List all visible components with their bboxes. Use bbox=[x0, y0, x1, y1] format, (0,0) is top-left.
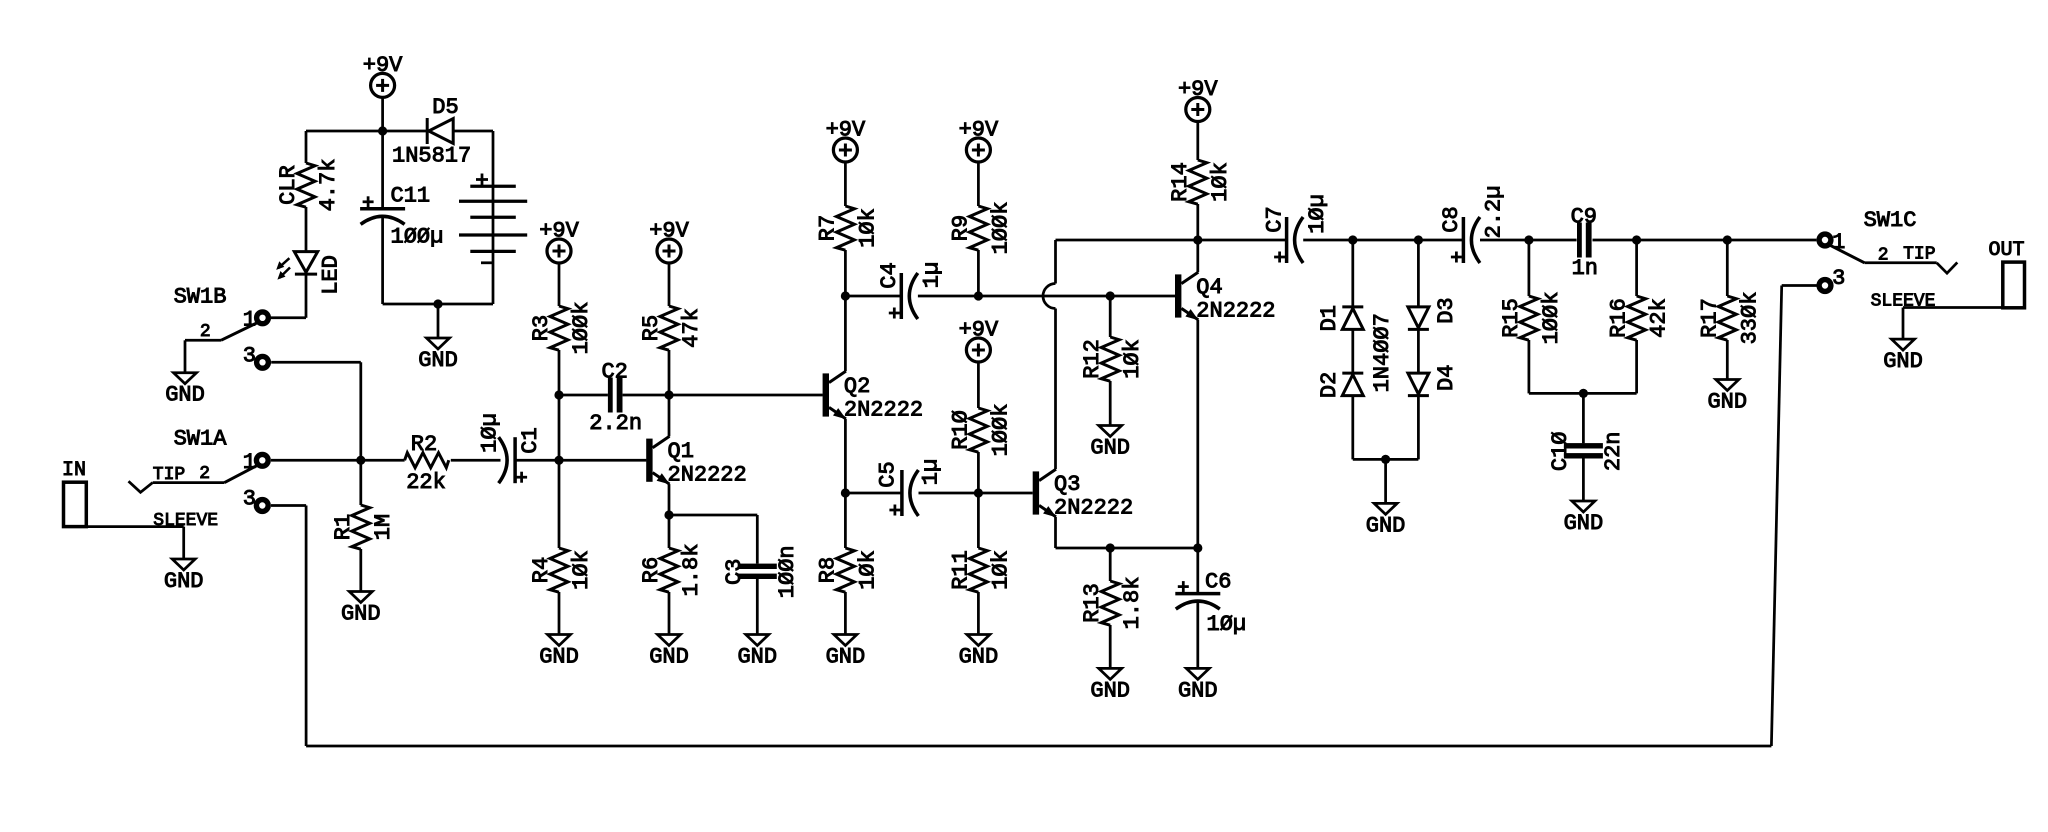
ground R11 bbox=[959, 635, 999, 670]
wire R4 to ground bbox=[558, 592, 561, 635]
wire emitter node to R6 bbox=[668, 515, 671, 548]
wire D3 to D4 bbox=[1417, 329, 1420, 373]
svg-text:2.2n: 2.2n bbox=[589, 411, 642, 436]
wire Q1 collector up bbox=[668, 395, 671, 436]
wire R15 drop bbox=[1528, 240, 1531, 296]
capacitor C8 bbox=[1451, 217, 1480, 263]
svg-text:3: 3 bbox=[243, 343, 256, 368]
wire IN sleeve east bbox=[86, 525, 183, 528]
wire R15 bottom bbox=[1528, 340, 1531, 393]
svg-text:R1: R1 bbox=[331, 514, 356, 540]
svg-text:+9V: +9V bbox=[959, 118, 999, 143]
svg-text:1µ: 1µ bbox=[920, 262, 945, 288]
svg-text:SW1B: SW1B bbox=[174, 284, 227, 309]
wire top rail left to CLR bbox=[306, 130, 383, 133]
capacitor C9 bbox=[1577, 223, 1592, 258]
wire OUT sleeve west bbox=[1903, 306, 2003, 309]
wire IN tip hook bbox=[129, 481, 153, 492]
junction +9V rail bbox=[378, 126, 387, 135]
wire R17 to ground bbox=[1726, 340, 1729, 380]
ground R12 bbox=[1090, 426, 1130, 461]
diode D5 bbox=[427, 118, 453, 144]
capacitor C6 bbox=[1175, 581, 1220, 609]
wire down to C3 bbox=[756, 515, 759, 564]
svg-text:1Øk: 1Øk bbox=[855, 550, 880, 590]
resistor R5 bbox=[660, 306, 678, 350]
junction R5 Q1 collector bbox=[664, 390, 673, 399]
resistor R3 bbox=[550, 306, 568, 350]
wire hop over Q4 base line bbox=[1043, 284, 1056, 309]
svg-text:GND: GND bbox=[165, 383, 205, 408]
resistor R15 bbox=[1520, 296, 1538, 340]
wire bypass down left bbox=[305, 506, 308, 747]
svg-text:C6: C6 bbox=[1205, 570, 1231, 595]
svg-text:1Øk: 1Øk bbox=[569, 550, 594, 590]
switch SW1C pin 3 bbox=[1819, 280, 1831, 292]
wire R13 to ground bbox=[1109, 625, 1112, 668]
switch SW1A lever bbox=[225, 465, 258, 482]
switch SW1B pin 3 bbox=[257, 356, 269, 368]
wire SW1B pin 2 to ground bbox=[184, 340, 187, 372]
svg-text:R14: R14 bbox=[1168, 162, 1193, 202]
svg-text:Q3: Q3 bbox=[1054, 472, 1080, 497]
wire IN tip to SW1A bbox=[153, 481, 225, 484]
wire C6 drop bbox=[1196, 548, 1199, 594]
wire diode ground stem bbox=[1384, 459, 1387, 503]
junction R14 Q4 collector C7 bbox=[1193, 235, 1202, 244]
ground C3 bbox=[737, 635, 777, 670]
ground R4 bbox=[539, 635, 579, 670]
svg-text:1µ: 1µ bbox=[919, 459, 944, 485]
resistor R17 bbox=[1718, 296, 1736, 340]
power +9V supply input bbox=[363, 53, 403, 98]
capacitor C11 bbox=[360, 196, 405, 224]
ground R17 bbox=[1707, 380, 1747, 415]
ground R1 bbox=[341, 592, 381, 627]
svg-text:GND: GND bbox=[418, 348, 458, 373]
wire D1 to D2 bbox=[1351, 329, 1354, 373]
battery BT1 bbox=[459, 131, 527, 304]
switch SW1B lever bbox=[221, 323, 258, 341]
wire D2 to bottom bbox=[1351, 396, 1354, 460]
switch SW1C pin 1 bbox=[1819, 234, 1831, 246]
svg-text:C8: C8 bbox=[1439, 206, 1464, 232]
wire node to C4 bbox=[845, 295, 901, 298]
wire R5 to node bbox=[668, 350, 671, 395]
svg-text:C1Ø: C1Ø bbox=[1548, 431, 1573, 471]
wire C11 to bottom bbox=[381, 217, 384, 305]
wire Q2 emitter to C5 bbox=[845, 492, 902, 495]
wire SW1A pin 1 to R2 bbox=[271, 459, 405, 462]
svg-text:1ØØk: 1ØØk bbox=[569, 302, 594, 355]
wire R12 to ground bbox=[1109, 381, 1112, 426]
ground battery bbox=[418, 338, 458, 373]
wire SW1B pin 3 down to input node bbox=[359, 362, 362, 460]
svg-text:1.8k: 1.8k bbox=[679, 544, 704, 597]
wire C10 to ground bbox=[1582, 459, 1585, 502]
svg-text:LED: LED bbox=[319, 255, 344, 295]
svg-text:C5: C5 bbox=[875, 461, 900, 487]
junction R9 bottom bbox=[974, 291, 983, 300]
svg-text:1n: 1n bbox=[1572, 256, 1598, 281]
wire C7 to C8 bbox=[1303, 239, 1463, 242]
svg-text:R5: R5 bbox=[639, 315, 664, 341]
svg-text:R3: R3 bbox=[529, 315, 554, 341]
svg-text:C1: C1 bbox=[518, 427, 543, 453]
wire +9V rail to D5 bbox=[383, 130, 428, 133]
wire OUT sleeve to ground bbox=[1902, 308, 1905, 340]
wire emitter to R8 bbox=[844, 493, 847, 548]
resistor R8 bbox=[836, 548, 854, 592]
junction R3 C2 bbox=[554, 390, 563, 399]
wire R7 to collector node bbox=[844, 250, 847, 296]
wire R3 node down bbox=[558, 395, 561, 460]
svg-text:D5: D5 bbox=[432, 95, 458, 120]
svg-text:C11: C11 bbox=[391, 184, 431, 209]
wire Q3 emitter down bbox=[1054, 517, 1057, 548]
svg-text:+9V: +9V bbox=[1178, 77, 1218, 102]
wire C10 drop bbox=[1582, 393, 1585, 443]
capacitor C3 bbox=[738, 564, 777, 579]
svg-text:GND: GND bbox=[959, 645, 999, 670]
wire ground stem battery bbox=[437, 304, 440, 338]
wire D3 drop bbox=[1417, 240, 1420, 307]
wire rail to C11 bbox=[381, 131, 384, 209]
switch SW1A pin 1 bbox=[256, 454, 268, 466]
capacitor C2 bbox=[608, 378, 623, 413]
power +9V R14 bbox=[1178, 77, 1218, 122]
svg-text:GND: GND bbox=[1178, 678, 1218, 703]
capacitor C7 bbox=[1274, 217, 1303, 263]
capacitor C5 bbox=[889, 470, 918, 516]
svg-text:1Øk: 1Øk bbox=[1120, 339, 1145, 379]
wire Q3 collector top bbox=[1054, 240, 1057, 284]
wire LED to SW1B corner bbox=[305, 276, 308, 318]
svg-text:R2: R2 bbox=[411, 432, 437, 457]
resistor R16 bbox=[1628, 296, 1646, 340]
ground OUT sleeve bbox=[1883, 339, 1923, 374]
svg-text:2N2222: 2N2222 bbox=[1196, 299, 1275, 324]
wire diode bottom rail bbox=[1353, 458, 1419, 461]
svg-text:GND: GND bbox=[1090, 436, 1130, 461]
svg-text:R12: R12 bbox=[1080, 339, 1105, 379]
transistor Q3 bbox=[1033, 469, 1057, 517]
junction C1 R3 R4 bbox=[554, 456, 563, 465]
wire R16 bottom bbox=[1635, 340, 1638, 393]
wire D5 to battery top bbox=[453, 130, 493, 133]
junction R7 C4 Q2 collector bbox=[841, 291, 850, 300]
ground R13 bbox=[1090, 668, 1130, 703]
wire Q2 collector up bbox=[844, 296, 847, 371]
ground R8 bbox=[826, 635, 866, 670]
resistor R14 bbox=[1189, 160, 1207, 204]
svg-text:R1Ø: R1Ø bbox=[948, 410, 973, 450]
wire R10 to node bbox=[977, 452, 980, 493]
svg-text:1ØØk: 1ØØk bbox=[1539, 292, 1564, 345]
diode D3 bbox=[1408, 307, 1429, 330]
svg-text:1ØØn: 1ØØn bbox=[775, 545, 800, 598]
svg-text:3: 3 bbox=[1832, 266, 1845, 291]
wire bypass up right bbox=[1771, 286, 1781, 747]
junction input node bbox=[356, 456, 365, 465]
svg-text:D4: D4 bbox=[1434, 365, 1459, 391]
diode D1 bbox=[1342, 307, 1363, 330]
wire +9V to R14 bbox=[1196, 122, 1199, 161]
resistor R1 bbox=[352, 505, 370, 549]
svg-text:22k: 22k bbox=[406, 470, 446, 495]
wire R3 to node bbox=[558, 350, 561, 395]
wire Q4 collector up bbox=[1196, 240, 1199, 272]
switch SW1B pin 1 bbox=[257, 312, 269, 324]
wire Q4 emitter down bbox=[1196, 320, 1199, 548]
junction R15 top bbox=[1524, 235, 1533, 244]
resistor CLR bbox=[297, 163, 315, 207]
transistor Q2 bbox=[823, 371, 847, 419]
svg-text:1.8k: 1.8k bbox=[1120, 577, 1145, 630]
svg-text:R8: R8 bbox=[815, 557, 840, 583]
junction R13 top bbox=[1106, 543, 1115, 552]
resistor R4 bbox=[550, 548, 568, 592]
svg-text:Q2: Q2 bbox=[844, 374, 870, 399]
svg-text:22n: 22n bbox=[1601, 431, 1626, 471]
junction R12 top bbox=[1106, 291, 1115, 300]
svg-text:+9V: +9V bbox=[363, 53, 403, 78]
wire SW1B pin 3 east bbox=[271, 361, 361, 364]
wire bypass bottom rail bbox=[306, 745, 1771, 748]
wire R14 to collector node bbox=[1196, 204, 1199, 240]
wire C9 to SW1C bbox=[1593, 239, 1817, 242]
wire C3 to ground bbox=[756, 579, 759, 635]
wire R17 drop bbox=[1726, 240, 1729, 296]
wire CLR drop bbox=[305, 131, 308, 163]
power +9V R10 bbox=[959, 318, 999, 363]
LED D6 bbox=[276, 252, 318, 280]
wire node to C7 bbox=[1198, 239, 1287, 242]
svg-text:GND: GND bbox=[539, 645, 579, 670]
wire R13 drop bbox=[1109, 548, 1112, 581]
junction R17 top bbox=[1723, 235, 1732, 244]
svg-text:R4: R4 bbox=[529, 557, 554, 583]
svg-text:2: 2 bbox=[199, 464, 210, 484]
ground IN sleeve bbox=[164, 559, 204, 594]
wire IN sleeve to ground bbox=[182, 527, 185, 559]
wire C4 to Q4 base bbox=[918, 295, 1175, 298]
svg-text:2: 2 bbox=[200, 322, 211, 342]
svg-text:D3: D3 bbox=[1434, 297, 1459, 323]
wire SW1A pin 3 east bbox=[271, 504, 306, 507]
wire node to C2 bbox=[559, 394, 608, 397]
diode D4 bbox=[1408, 373, 1429, 396]
resistor R10 bbox=[969, 408, 987, 452]
svg-text:R11: R11 bbox=[948, 550, 973, 590]
ground SW1B bbox=[165, 373, 205, 408]
power +9V R7 bbox=[826, 118, 866, 163]
switch SW1C lever bbox=[1830, 245, 1865, 263]
capacitor C1 bbox=[499, 437, 527, 483]
switch SW1A pin 3 bbox=[256, 500, 268, 512]
junction battery ground bbox=[433, 299, 442, 308]
wire C6 to ground bbox=[1196, 602, 1199, 669]
svg-text:GND: GND bbox=[737, 645, 777, 670]
wire R16 drop bbox=[1635, 240, 1638, 296]
transistor Q1 bbox=[646, 436, 670, 484]
svg-text:47k: 47k bbox=[679, 308, 704, 348]
svg-text:1Øµ: 1Øµ bbox=[1305, 194, 1330, 234]
wire C5 to Q3 base bbox=[919, 492, 1033, 495]
wire +9V to R5 bbox=[668, 263, 671, 306]
junction R10 R11 Q3 base bbox=[974, 488, 983, 497]
svg-text:GND: GND bbox=[649, 645, 689, 670]
power +9V R3 bbox=[539, 219, 579, 264]
svg-text:GND: GND bbox=[1883, 349, 1923, 374]
svg-text:GND: GND bbox=[164, 569, 204, 594]
ground R6 bbox=[649, 635, 689, 670]
wire +9V to R7 bbox=[844, 162, 847, 206]
connector IN jack bbox=[64, 482, 87, 526]
junction D1 branch bbox=[1348, 235, 1357, 244]
wire CLR to LED bbox=[305, 207, 308, 252]
wire OUT tip hook bbox=[1937, 262, 1958, 273]
power +9V R5 bbox=[649, 219, 689, 264]
diode D2 bbox=[1342, 373, 1363, 396]
junction C10 top bbox=[1579, 389, 1588, 398]
transistor Q4 bbox=[1175, 272, 1199, 320]
svg-text:1Øk: 1Øk bbox=[855, 208, 880, 248]
svg-text:2N2222: 2N2222 bbox=[668, 463, 747, 488]
svg-text:33Øk: 33Øk bbox=[1737, 292, 1762, 345]
svg-text:1Øµ: 1Øµ bbox=[477, 413, 502, 453]
wire battery bottom rail bbox=[383, 303, 493, 306]
wire SW1B pin 2 horizontal bbox=[185, 339, 221, 342]
svg-text:42k: 42k bbox=[1647, 298, 1672, 338]
svg-text:SW1A: SW1A bbox=[174, 426, 228, 451]
svg-text:1ØØk: 1ØØk bbox=[988, 202, 1013, 255]
wire Q2 emitter down bbox=[844, 419, 847, 493]
svg-text:+9V: +9V bbox=[539, 219, 579, 244]
svg-text:1N5817: 1N5817 bbox=[392, 144, 471, 169]
svg-text:GND: GND bbox=[1707, 390, 1747, 415]
svg-text:GND: GND bbox=[826, 645, 866, 670]
resistor R9 bbox=[969, 206, 987, 250]
svg-text:C3: C3 bbox=[722, 559, 747, 585]
svg-text:2.2µ: 2.2µ bbox=[1482, 186, 1507, 239]
resistor R2 bbox=[405, 453, 449, 468]
wire D1 drop bbox=[1351, 240, 1354, 307]
junction diode ground bbox=[1381, 455, 1390, 464]
svg-text:3: 3 bbox=[243, 487, 256, 512]
svg-text:R15: R15 bbox=[1499, 298, 1524, 338]
svg-text:R9: R9 bbox=[948, 215, 973, 241]
svg-text:1N4ØØ7: 1N4ØØ7 bbox=[1370, 313, 1395, 392]
svg-text:GND: GND bbox=[1366, 513, 1406, 538]
wire C2 to Q2 base line bbox=[623, 394, 823, 397]
svg-text:1ØØµ: 1ØØµ bbox=[391, 225, 444, 250]
svg-text:SLEEVE: SLEEVE bbox=[153, 511, 218, 531]
wire Q3 collector to output node bbox=[1056, 239, 1198, 242]
svg-text:1Øk: 1Øk bbox=[988, 550, 1013, 590]
junction R16 top bbox=[1632, 235, 1641, 244]
svg-text:GND: GND bbox=[341, 602, 381, 627]
svg-text:D1: D1 bbox=[1317, 305, 1342, 331]
junction Q1 emitter bbox=[664, 510, 673, 519]
svg-text:SW1C: SW1C bbox=[1864, 208, 1917, 233]
svg-text:GND: GND bbox=[1564, 511, 1604, 536]
wire LED corner to SW1B pin 1 bbox=[271, 316, 306, 319]
svg-text:+9V: +9V bbox=[826, 118, 866, 143]
wire R12 drop bbox=[1109, 296, 1112, 337]
ground C6 bbox=[1178, 668, 1218, 703]
svg-text:R7: R7 bbox=[815, 215, 840, 241]
svg-text:R16: R16 bbox=[1607, 298, 1632, 338]
resistor R12 bbox=[1101, 337, 1119, 381]
wire R8 to ground bbox=[844, 592, 847, 635]
svg-text:4.7k: 4.7k bbox=[316, 159, 341, 212]
wire Q1 emitter to C3 bbox=[669, 514, 757, 517]
svg-text:D2: D2 bbox=[1317, 372, 1342, 398]
resistor R6 bbox=[660, 548, 678, 592]
wire bypass to SW1C pin 3 bbox=[1782, 284, 1817, 287]
svg-text:1Øk: 1Øk bbox=[1208, 162, 1233, 202]
wire D4 to bottom bbox=[1417, 396, 1420, 460]
power +9V R9 bbox=[959, 118, 999, 163]
svg-text:2N2222: 2N2222 bbox=[1054, 496, 1133, 521]
wire +9V to R9 bbox=[977, 162, 980, 206]
junction Q4 emitter C6 bbox=[1193, 543, 1202, 552]
svg-text:+9V: +9V bbox=[959, 318, 999, 343]
ground diodes bbox=[1366, 503, 1406, 538]
wire R1 to ground bbox=[359, 549, 362, 592]
wire R9 to node bbox=[977, 250, 980, 296]
wire node to R11 bbox=[977, 493, 980, 548]
wire R15 R16 bottom rail bbox=[1529, 392, 1637, 395]
svg-text:C4: C4 bbox=[877, 262, 902, 288]
junction D3 branch bbox=[1414, 235, 1423, 244]
svg-text:Q4: Q4 bbox=[1196, 275, 1222, 300]
svg-text:CLR: CLR bbox=[276, 165, 301, 205]
capacitor C10 bbox=[1564, 443, 1603, 458]
wire SW1C tip bbox=[1865, 261, 1937, 264]
wire C8 to C9 bbox=[1480, 239, 1577, 242]
svg-text:1Øµ: 1Øµ bbox=[1207, 612, 1247, 637]
svg-text:C7: C7 bbox=[1262, 206, 1287, 232]
wire R6 to ground bbox=[668, 592, 671, 635]
wire C1 to Q1 base bbox=[515, 459, 646, 462]
connector OUT jack bbox=[2003, 262, 2025, 308]
svg-text:1ØØk: 1ØØk bbox=[988, 404, 1013, 457]
svg-text:C2: C2 bbox=[601, 360, 627, 385]
wire +9V to R10 bbox=[977, 362, 980, 408]
svg-text:C9: C9 bbox=[1571, 205, 1597, 230]
wire Q3 emitter rail bbox=[1056, 547, 1198, 550]
svg-text:+9V: +9V bbox=[649, 219, 689, 244]
wire R2 to C1 bbox=[451, 459, 501, 462]
wire +9V to R3 bbox=[558, 263, 561, 306]
resistor R11 bbox=[969, 548, 987, 592]
svg-text:R6: R6 bbox=[639, 557, 664, 583]
wire R11 to ground bbox=[977, 592, 980, 635]
svg-text:OUT: OUT bbox=[1988, 239, 2024, 262]
wire Q1 emitter down bbox=[668, 484, 671, 515]
junction Q2 emitter C5 R8 bbox=[841, 488, 850, 497]
ground C10 bbox=[1564, 501, 1604, 536]
svg-text:GND: GND bbox=[1090, 678, 1130, 703]
wire +9V stem bbox=[381, 97, 384, 131]
wire node to R4 bbox=[558, 460, 561, 548]
svg-text:1M: 1M bbox=[371, 514, 396, 540]
svg-text:2N2222: 2N2222 bbox=[844, 398, 923, 423]
wire input node to R1 bbox=[359, 460, 362, 505]
svg-text:IN: IN bbox=[62, 459, 86, 482]
